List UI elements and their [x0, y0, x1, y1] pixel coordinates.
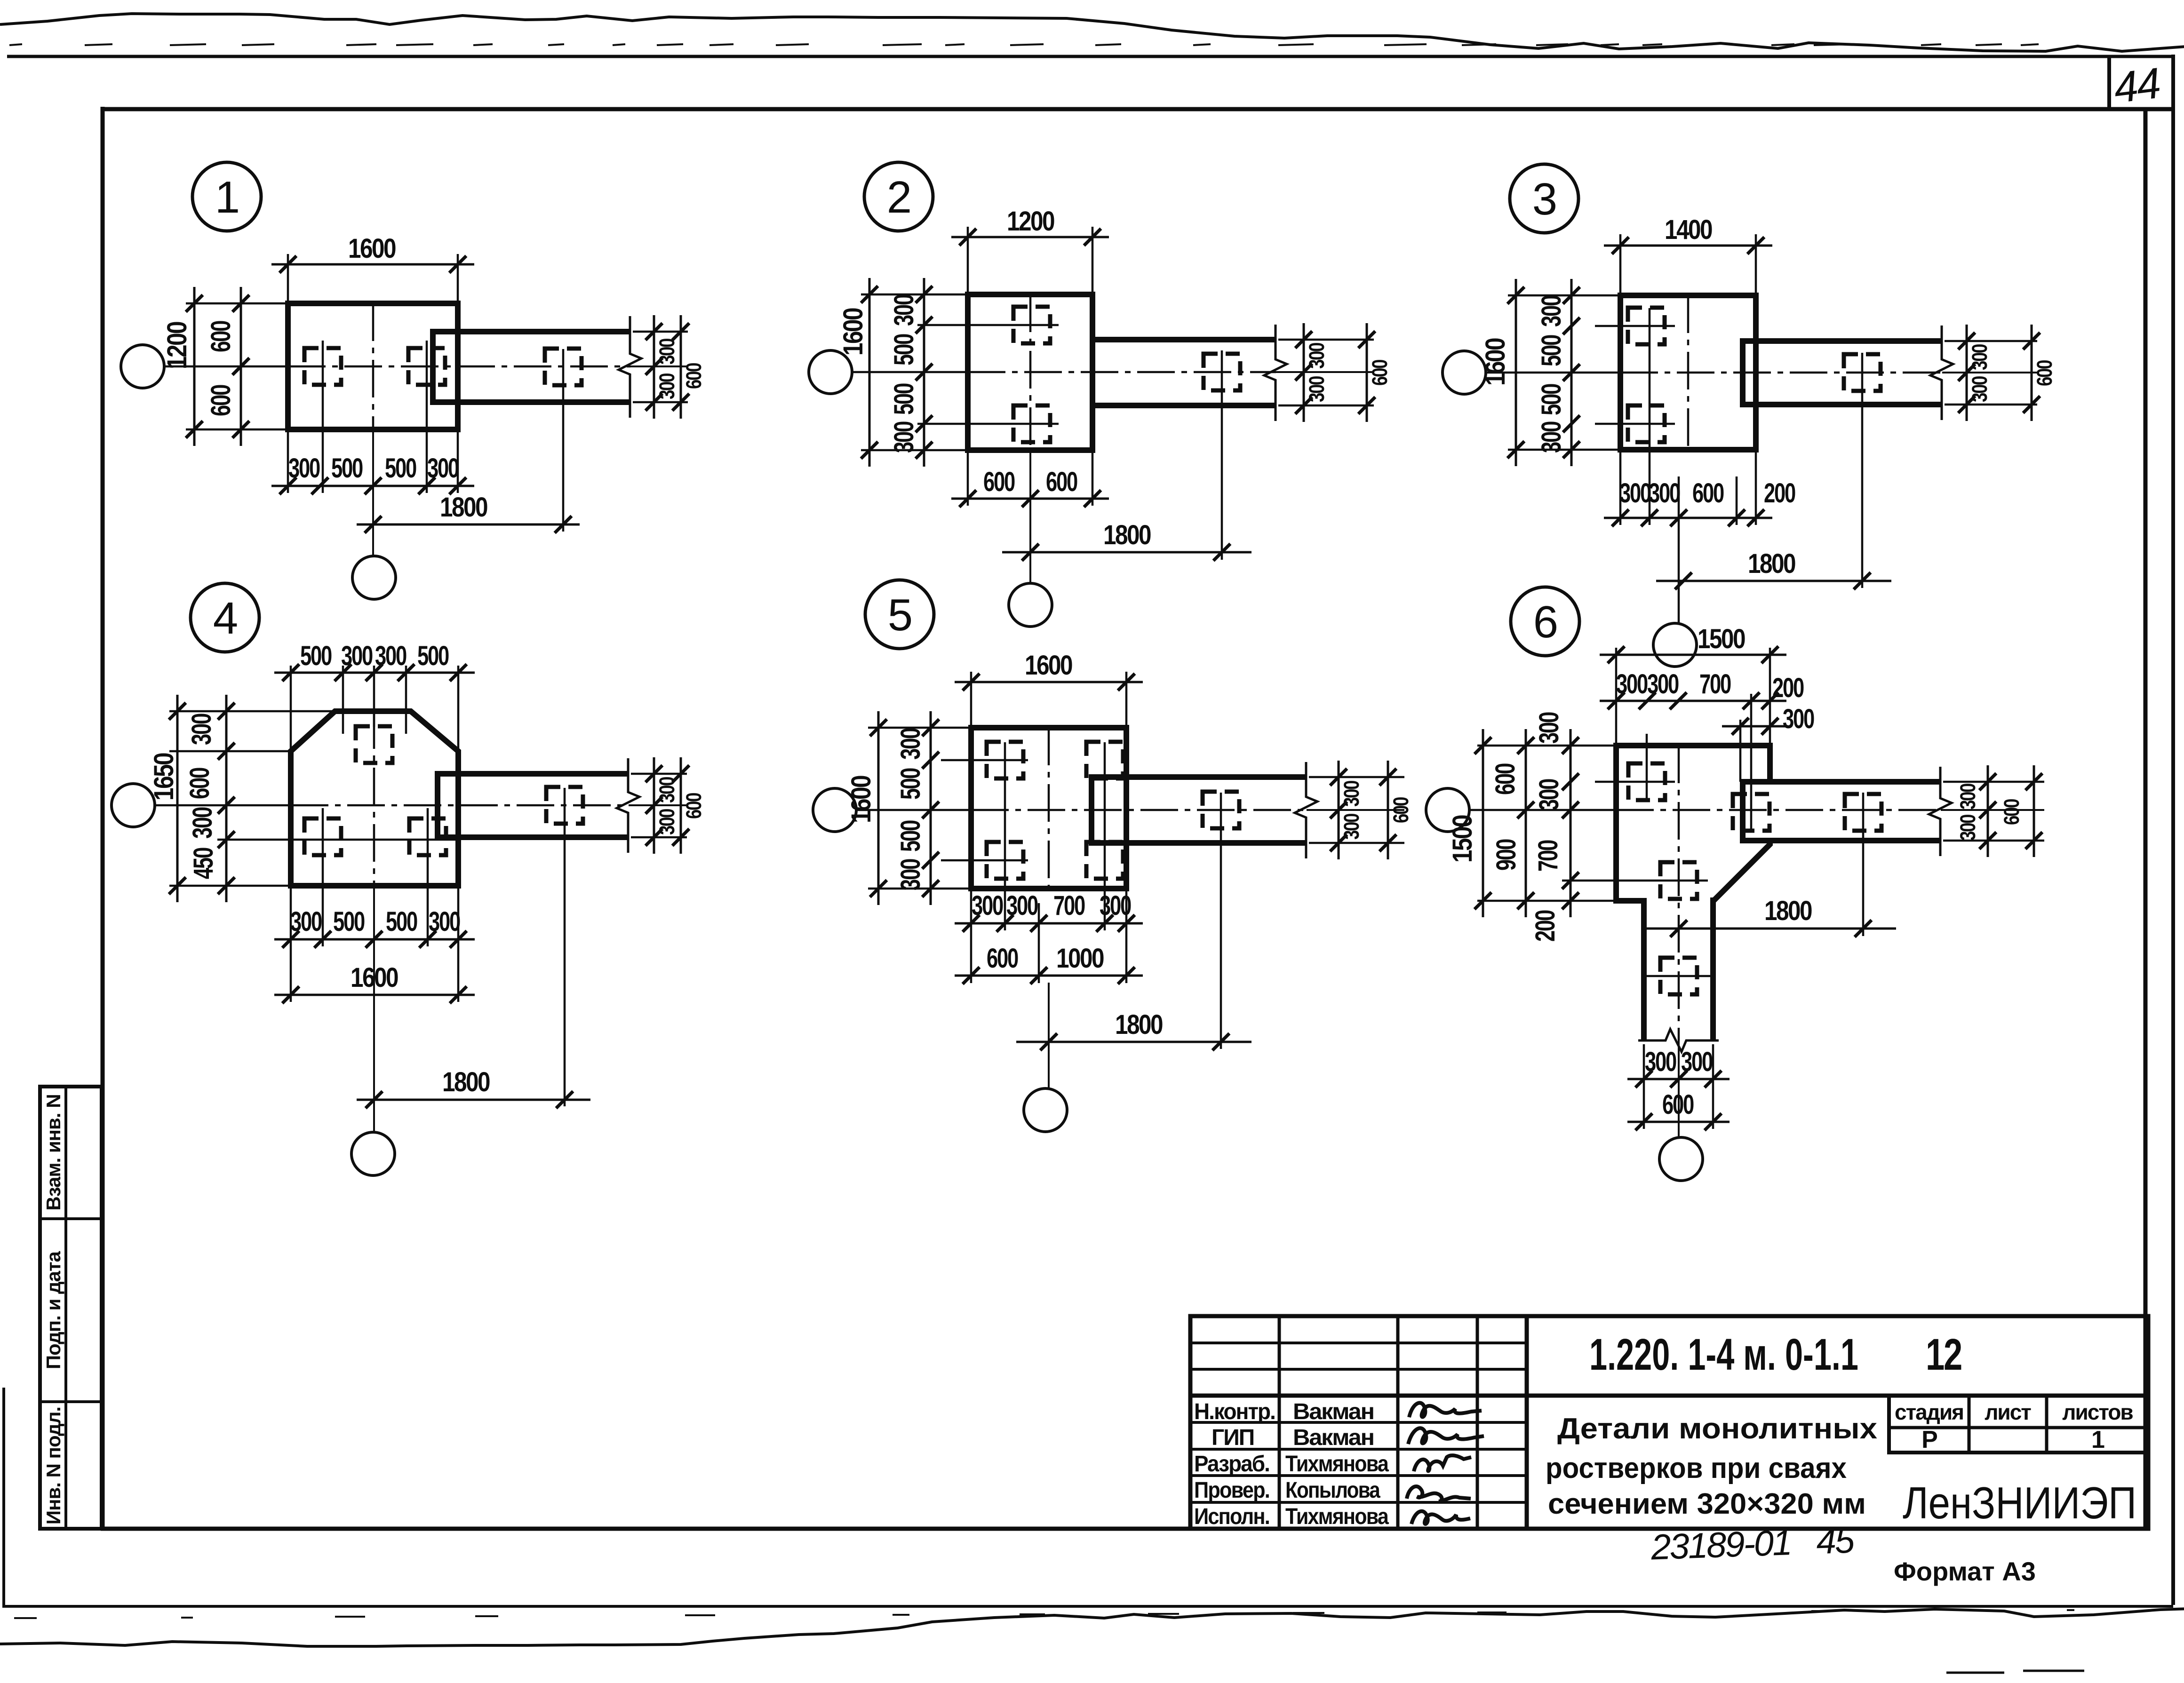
detail 5 right dim line 600: [1379, 761, 1396, 859]
strip column divider: [64, 1087, 67, 1529]
svg-text:6: 6: [1533, 597, 1557, 647]
detail 1 dimension line 300/500/500/300 (bottom): [271, 477, 474, 494]
detail 2 beam break line: [1264, 325, 1287, 421]
detail 6 leg pile 1 axis line: [1562, 880, 1708, 882]
detail 6 beam pile 1 axis line: [1750, 694, 1753, 833]
detail 4 top ext e: [457, 666, 460, 751]
detail 3 pile column axis line: [1649, 308, 1651, 525]
torn edge top faint dashed line: [9, 44, 2039, 45]
detail 6 bottom axis circle: [1659, 1137, 1703, 1181]
detail 2 bottom extension right: [1092, 450, 1094, 506]
svg-text:1800: 1800: [1764, 896, 1812, 926]
detail 4 beam break line: [617, 758, 639, 853]
detail 2 dimension line 1800: [1002, 544, 1251, 561]
detail 6 pile cap outline (L-shaped): [1616, 746, 1770, 1040]
detail 3 bottom axis circle: [1653, 623, 1697, 667]
detail 5 dimension line 1600 (outer left): [870, 711, 887, 905]
title block vertical divider col1: [1278, 1316, 1281, 1529]
svg-text:Детали монолитных: Детали монолитных: [1557, 1413, 1878, 1445]
signature squiggle 3: [1414, 1455, 1471, 1471]
detail 2 dimension line 1600 (outer left): [861, 278, 878, 467]
detail 6 horizontal centerline: [1469, 809, 2044, 811]
detail 6 label circle: [1511, 587, 1579, 656]
detail 6 dimension line 1500 (outer left): [1475, 729, 1491, 917]
detail 1 beam pile: [545, 349, 582, 385]
detail 1 beam pile axis line: [562, 349, 565, 532]
detail 6 right dim line 300/300: [1979, 765, 1996, 857]
detail 5 beam break line: [1295, 762, 1317, 858]
svg-text:1800: 1800: [1115, 1009, 1163, 1040]
detail 5 pile B (top right): [1086, 742, 1123, 778]
svg-text:300: 300: [1647, 669, 1679, 699]
detail 1 pile A (left): [304, 348, 341, 385]
svg-text:Тихмянова: Тихмянова: [1285, 1504, 1389, 1529]
detail 1 right dim line 600: [672, 315, 689, 419]
title block vertical divider col2: [1396, 1316, 1400, 1529]
svg-text:600: 600: [682, 793, 706, 819]
title block vertical divider col4: [1525, 1316, 1529, 1529]
detail 1 pile B axis line: [426, 341, 428, 493]
detail 5 dimension line 300/500/500/300 (inner left): [922, 711, 939, 905]
svg-text:Копылова: Копылова: [1285, 1478, 1380, 1503]
detail 6 leg pile 1: [1660, 862, 1697, 899]
title block row line 5: [1190, 1474, 1527, 1477]
svg-text:500: 500: [889, 383, 919, 415]
svg-text:600: 600: [206, 321, 236, 352]
detail 5 dimension line 1800: [1016, 1033, 1251, 1050]
detail 2 left extension bottom: [861, 449, 968, 452]
svg-text:300: 300: [655, 373, 679, 399]
svg-text:1800: 1800: [442, 1067, 490, 1097]
detail 1 dimension line 1800: [357, 516, 580, 533]
svg-text:500: 500: [417, 641, 449, 671]
svg-text:Р: Р: [1921, 1426, 1937, 1453]
detail 3 beam pile axis line: [1861, 353, 1864, 588]
svg-text:4: 4: [213, 593, 237, 643]
svg-text:300: 300: [1006, 890, 1038, 921]
detail 5 pile AB axis line: [941, 759, 1028, 762]
detail 1 right extension top: [633, 331, 688, 333]
svg-text:300: 300: [889, 421, 919, 453]
detail 4 left ext bottom: [169, 885, 291, 887]
detail 3 pile B (bottom): [1628, 405, 1665, 442]
svg-text:1600: 1600: [1025, 650, 1072, 681]
detail 3 top extension left: [1619, 234, 1622, 295]
detail 2 dimension line 600/600 (bottom): [951, 490, 1109, 507]
detail 3 right extension top: [1945, 340, 2037, 342]
detail 4 dimension line 300/600/300/450 (inner left): [218, 695, 235, 902]
detail 3 grillage beam: [1743, 341, 1942, 405]
detail 6 vertical centerline (leg axis): [1678, 746, 1680, 1138]
svg-text:1600: 1600: [351, 962, 398, 993]
title block vertical divider col3: [1476, 1316, 1479, 1529]
detail 2 top extension left: [967, 227, 969, 294]
detail 5 bottom ext mid: [1038, 903, 1040, 983]
svg-text:600: 600: [1490, 763, 1521, 795]
detail 5 bottom ext right: [1125, 889, 1128, 983]
detail 1 pile A axis line: [322, 341, 324, 493]
svg-text:ЛенЗНИИЭП: ЛенЗНИИЭП: [1903, 1478, 2136, 1528]
detail 2 dimension line 300/500/500/300 (inner left): [916, 278, 933, 467]
svg-text:1600: 1600: [838, 308, 869, 356]
torn edge bottom faint dashes: [14, 1610, 2074, 1618]
detail 1 beam break line: [619, 316, 641, 418]
detail 2 right extension bottom: [1278, 405, 1374, 407]
detail 6 chamfer and leg right edge: [1713, 841, 1770, 1040]
svg-text:300: 300: [1968, 376, 1992, 402]
svg-text:600: 600: [2033, 360, 2056, 386]
detail 5 dimension line 600/1000: [955, 967, 1143, 984]
detail 4 right ext top: [631, 773, 687, 775]
detail 5 beam pile: [1203, 792, 1239, 828]
detail 6 pile A axis line: [1646, 734, 1648, 802]
detail 3 bottom extension left: [1619, 450, 1622, 525]
svg-text:300: 300: [375, 641, 407, 671]
sheet outer bottom edge: [4, 1605, 2173, 1608]
svg-text:300: 300: [1534, 779, 1564, 810]
detail 3 right dim line 600: [2023, 325, 2040, 421]
top band upper line: [7, 55, 2173, 58]
svg-text:Тихмянова: Тихмянова: [1285, 1452, 1389, 1477]
detail 4 pile C (bottom right): [409, 818, 446, 855]
detail 1 top extension right: [457, 254, 459, 303]
svg-text:44: 44: [2111, 59, 2162, 112]
strip row divider 2: [40, 1400, 102, 1403]
svg-text:900: 900: [1491, 839, 1522, 871]
svg-text:600: 600: [1046, 467, 1077, 497]
signature squiggle 4: [1407, 1486, 1471, 1501]
detail 5 grillage beam: [1092, 777, 1307, 843]
detail 1 left axis circle: [121, 345, 164, 388]
detail 4 left ext chamfer: [169, 750, 291, 753]
detail 2 bottom extension left: [967, 450, 969, 506]
detail 4 label circle: [191, 583, 259, 652]
detail 6 right dim line 600: [2025, 765, 2042, 857]
detail 5 left axis circle: [813, 788, 856, 832]
svg-text:Н.контр.: Н.контр.: [1194, 1399, 1275, 1424]
svg-text:300: 300: [1339, 780, 1363, 807]
svg-text:500: 500: [889, 334, 919, 365]
svg-text:300: 300: [1536, 295, 1567, 327]
svg-text:Вакман: Вакман: [1293, 1399, 1374, 1424]
detail 2 right dim line 600: [1358, 323, 1375, 422]
detail 3 right extension bottom: [1945, 404, 2037, 406]
svg-text:600: 600: [1692, 478, 1724, 508]
svg-text:500: 500: [300, 641, 332, 671]
detail 2 beam pile: [1204, 354, 1240, 390]
detail 6 leg pile 2 axis line: [1647, 975, 1713, 977]
detail 6 top ext right: [1769, 648, 1771, 746]
detail 3 right dim line 300/300: [1958, 325, 1975, 421]
detail 5 right dim line 300/300: [1330, 761, 1347, 859]
svg-text:300: 300: [889, 294, 919, 326]
detail 4 left axis circle: [112, 784, 155, 827]
detail 4 beam pile axis line: [564, 788, 566, 1106]
detail 4 horizontal centerline: [155, 804, 687, 807]
svg-text:сечением 320×320 мм: сечением 320×320 мм: [1548, 1488, 1866, 1520]
svg-text:300: 300: [1783, 704, 1814, 734]
svg-text:600: 600: [1368, 359, 1392, 386]
detail 6 leg bottom ext left: [1643, 1044, 1645, 1129]
signature squiggle 1: [1409, 1403, 1482, 1417]
svg-text:Вакман: Вакман: [1293, 1425, 1374, 1450]
detail 6 right ext top: [1943, 781, 2044, 783]
detail 4 pile C axis line: [427, 808, 429, 946]
svg-text:300: 300: [895, 859, 926, 890]
detail 2 left axis circle: [809, 350, 852, 394]
detail 2 top extension right: [1092, 227, 1094, 294]
detail 6 ext beam left edge: [1739, 720, 1742, 782]
detail 3 pile A axis line: [1595, 325, 1675, 327]
strip row divider 1: [40, 1217, 102, 1220]
detail 4 dimension line 500/300/300/500 (top): [274, 664, 475, 681]
svg-text:450: 450: [188, 848, 219, 879]
svg-text:600: 600: [184, 768, 215, 799]
svg-text:1600: 1600: [348, 233, 396, 264]
detail 2 pile A axis line: [917, 324, 1059, 326]
svg-text:1650: 1650: [149, 753, 179, 801]
detail 5 pile D (bottom right): [1086, 842, 1123, 879]
svg-text:200: 200: [1772, 673, 1804, 703]
detail 4 dimension line 1650 (outer left): [169, 695, 186, 902]
svg-text:300: 300: [1645, 1047, 1676, 1077]
svg-text:500: 500: [895, 768, 926, 800]
main frame top border: [103, 107, 2173, 111]
detail 3 beam pile: [1844, 354, 1881, 391]
detail 3 left extension bottom: [1508, 449, 1620, 451]
detail 2 right extension top: [1278, 339, 1374, 341]
detail 3 left extension top: [1508, 294, 1620, 297]
svg-text:2: 2: [887, 172, 910, 222]
signature squiggle 5: [1411, 1511, 1470, 1524]
detail 4 pile cap outline (chamfered): [291, 711, 458, 886]
svg-text:Формат А3: Формат А3: [1894, 1556, 2036, 1586]
detail 6 leg pile 2: [1660, 958, 1697, 994]
svg-text:1200: 1200: [162, 322, 192, 369]
svg-text:12: 12: [1926, 1330, 1961, 1380]
detail 4 left ext top: [169, 710, 335, 713]
detail 2 pile B (bottom): [1013, 405, 1050, 442]
svg-text:1500: 1500: [1698, 624, 1745, 654]
detail 5 right ext bottom: [1309, 842, 1404, 844]
detail 1 bottom axis circle: [352, 556, 396, 599]
detail 6 grillage beam: [1743, 782, 1941, 841]
svg-text:Взам. инв. N: Взам. инв. N: [42, 1094, 64, 1210]
detail 3 horizontal centerline: [1486, 372, 2037, 374]
detail 2 bottom axis circle: [1009, 583, 1052, 627]
detail 4 right ext bottom: [631, 836, 687, 839]
svg-text:листов: листов: [2062, 1400, 2133, 1424]
detail 5 pile C (bottom left): [987, 842, 1023, 879]
detail 6 beam break line: [1929, 767, 1952, 856]
svg-text:Провер.: Провер.: [1194, 1478, 1269, 1503]
detail 5 top ext left: [970, 672, 972, 728]
detail 1 bottom extension right: [457, 429, 459, 493]
title block row line 4: [1190, 1448, 1527, 1451]
svg-text:300: 300: [429, 906, 460, 937]
detail 2 dimension line 1200 (top): [951, 229, 1109, 246]
svg-text:лист: лист: [1985, 1400, 2031, 1424]
stage table divider v2: [2045, 1396, 2048, 1453]
detail 6 dimension line 600/900 (mid left): [1517, 729, 1534, 917]
svg-text:Исполн.: Исполн.: [1194, 1504, 1269, 1529]
svg-text:300: 300: [1536, 421, 1567, 453]
svg-text:300: 300: [1305, 342, 1329, 369]
detail 3 bottom extension mid: [1678, 476, 1680, 525]
svg-text:Подп. и дата: Подп. и дата: [42, 1251, 64, 1369]
detail 4 pile B (bottom left): [304, 818, 341, 855]
detail 5 bottom ext left: [970, 889, 972, 983]
svg-text:300: 300: [290, 906, 322, 937]
detail 3 pile A (top): [1628, 308, 1665, 344]
detail 4 pile B axis line: [322, 808, 324, 946]
detail 4 dimension line 1600: [274, 986, 475, 1003]
title block horizontal row line 2: [1190, 1368, 1527, 1371]
detail 5 vertical centerline: [1048, 728, 1050, 1089]
svg-text:300: 300: [1619, 478, 1651, 508]
detail 4 top ext a: [290, 666, 292, 751]
detail 3 top extension right: [1755, 234, 1757, 295]
main frame left border: [101, 107, 105, 1531]
detail 2 pile B axis line: [917, 423, 1059, 425]
detail 1 bottom extension left: [287, 429, 289, 493]
left attachment strip frame: [40, 1087, 102, 1529]
detail 6 pile A (in cap): [1628, 763, 1665, 800]
svg-text:3: 3: [1532, 174, 1556, 224]
detail 6 left axis circle: [1426, 788, 1469, 832]
detail 6 dimension line 300/300/700/200 (inner left): [1562, 729, 1579, 917]
detail 1 dimension line 600/600 (inner left): [232, 287, 249, 446]
svg-text:1200: 1200: [1007, 206, 1054, 237]
svg-text:700: 700: [1053, 890, 1085, 921]
detail 5 bottom axis circle: [1024, 1088, 1067, 1132]
detail 6 dimension line 600 (leg): [1627, 1113, 1730, 1130]
detail 3 pile cap outline: [1620, 295, 1756, 450]
detail 1 label circle: [192, 162, 261, 231]
svg-text:200: 200: [1764, 478, 1795, 508]
detail 1 right dim line 300/300: [646, 315, 662, 419]
svg-text:300: 300: [1100, 890, 1131, 921]
detail 1 pile B (right): [408, 348, 445, 385]
detail 4 dimension line 300/500/500/300 (bottom): [274, 931, 475, 948]
detail 6 top ext left: [1615, 648, 1618, 746]
detail 4 bottom ext right: [457, 886, 460, 1002]
detail 1 grillage beam: [433, 332, 630, 402]
detail 4 dimension line 1800: [357, 1091, 590, 1108]
detail 6 left ext top: [1477, 745, 1616, 747]
svg-text:300: 300: [1968, 344, 1992, 370]
stage table frame: [1889, 1396, 2148, 1453]
detail 3 bottom extension right: [1755, 450, 1757, 525]
torn paper edge top: [0, 14, 2184, 51]
detail 1 vertical centerline: [372, 303, 375, 556]
svg-text:5: 5: [888, 590, 911, 640]
detail 2 pile cap outline: [968, 294, 1092, 450]
main frame bottom border: [101, 1527, 2148, 1531]
svg-text:1800: 1800: [1103, 520, 1151, 550]
detail 3 dimension line 1800: [1656, 572, 1891, 589]
svg-text:600: 600: [1662, 1089, 1694, 1120]
svg-text:500: 500: [895, 820, 926, 852]
detail 1 dimension line 1200 (outer left): [186, 287, 203, 446]
sheet outer right edge: [2171, 55, 2175, 1605]
svg-text:1: 1: [2091, 1426, 2104, 1453]
detail 3 left axis circle: [1443, 351, 1486, 394]
title block horizontal row line 1: [1190, 1342, 1527, 1344]
detail 5 right ext top: [1309, 776, 1404, 778]
svg-text:1400: 1400: [1665, 214, 1712, 245]
svg-text:600: 600: [682, 363, 706, 389]
svg-text:300: 300: [1956, 814, 1980, 841]
svg-text:300: 300: [1305, 376, 1329, 402]
detail 4 pile A (top center): [356, 726, 392, 763]
svg-text:600: 600: [206, 385, 236, 416]
detail 6 dimension line 300/300/700/200: [1600, 692, 1786, 709]
detail 2 beam pile axis line: [1221, 350, 1223, 560]
detail 5 label circle: [865, 580, 934, 649]
detail 6 dimension line 1800: [1647, 920, 1896, 937]
svg-text:Разраб.: Разраб.: [1194, 1452, 1269, 1477]
svg-text:600: 600: [1389, 797, 1413, 823]
svg-text:1600: 1600: [846, 776, 877, 823]
stray mark bottom right: [1946, 1671, 2084, 1673]
title block header bottom line: [1190, 1394, 2148, 1398]
detail 3 bottom extension 600: [1736, 476, 1738, 525]
detail 5 left ext top: [868, 727, 971, 729]
detail 5 pile AC axis line: [1004, 742, 1006, 930]
detail 3 dimension line 300/500/500/300 (inner left): [1563, 279, 1580, 466]
svg-text:500: 500: [385, 453, 416, 484]
svg-text:300: 300: [1681, 1047, 1713, 1077]
svg-text:700: 700: [1699, 669, 1731, 699]
detail 1 pile cap outline: [288, 303, 458, 429]
svg-text:ГИП: ГИП: [1212, 1425, 1254, 1450]
svg-text:300: 300: [1339, 813, 1363, 840]
svg-text:300: 300: [427, 453, 459, 484]
svg-text:300: 300: [655, 338, 679, 365]
detail 1 right extension bottom: [633, 401, 688, 404]
detail 3 beam break line: [1930, 325, 1953, 420]
detail 1 dimension line 1600 (top): [271, 256, 474, 273]
detail 4 bottom ext left: [290, 886, 292, 1002]
detail 6 beam pile 1: [1733, 794, 1770, 831]
svg-text:1600: 1600: [1480, 338, 1511, 386]
detail 4 vertical centerline: [373, 711, 375, 1133]
detail 4 top ext c: [373, 666, 375, 727]
detail 6 leg bottom ext right: [1712, 1044, 1714, 1129]
svg-text:стадия: стадия: [1895, 1400, 1963, 1424]
detail 3 dimension line 1400 (top): [1604, 237, 1772, 254]
detail 5 left ext bottom: [868, 888, 971, 890]
detail 3 pile B axis line: [1595, 423, 1675, 425]
detail 2 left extension top: [861, 294, 968, 296]
detail 2 pile A (top): [1013, 307, 1050, 343]
stage table divider v1: [1968, 1396, 1971, 1453]
svg-text:1500: 1500: [1447, 815, 1478, 863]
svg-text:600: 600: [983, 467, 1015, 497]
svg-text:300: 300: [187, 807, 218, 839]
svg-text:500: 500: [331, 453, 363, 484]
detail 1 left extension bottom: [186, 429, 288, 431]
detail 2 vertical centerline: [1029, 294, 1032, 583]
detail 5 dimension line 300/300/700/300 (bottom): [955, 915, 1143, 932]
signature squiggle 2: [1408, 1428, 1484, 1444]
svg-text:ростверков при сваях: ростверков при сваях: [1546, 1452, 1847, 1485]
svg-text:600: 600: [987, 943, 1018, 974]
detail 6 beam pile 2 axis line: [1862, 793, 1865, 936]
torn paper edge bottom: [0, 1607, 2184, 1646]
detail 4 beam pile: [546, 787, 583, 824]
